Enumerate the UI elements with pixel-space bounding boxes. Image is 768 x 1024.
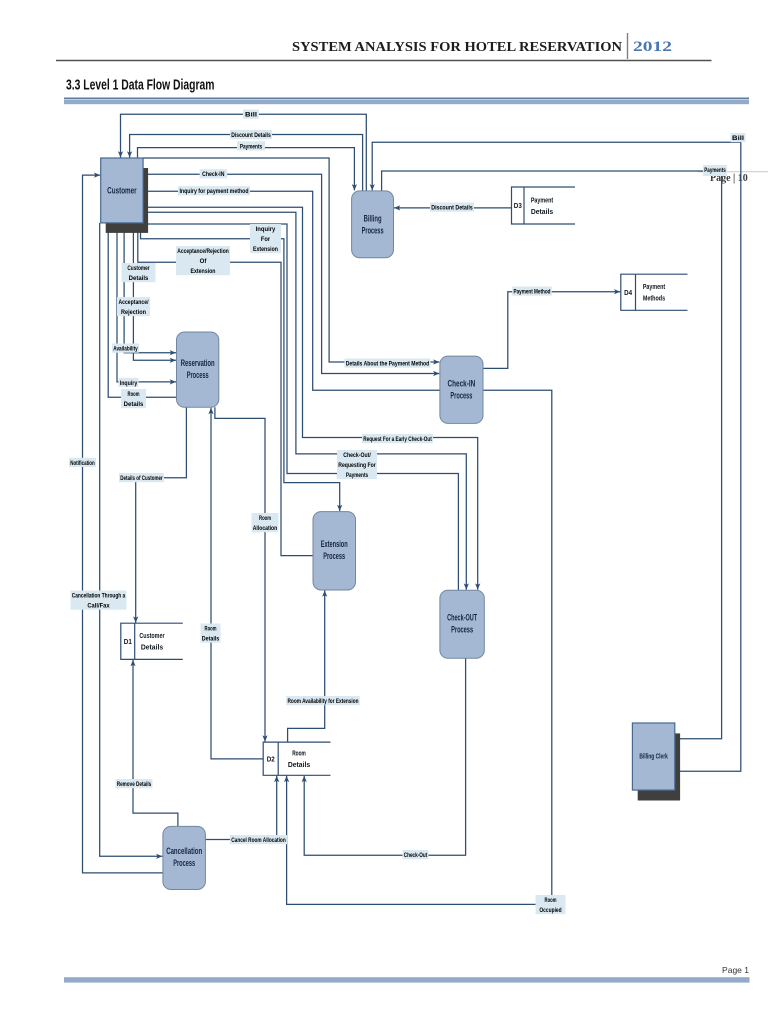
wire Bill (Billing Clerk to Billing Process): [370, 142, 741, 771]
node label: Inquiry For Extension: [250, 224, 281, 253]
side page number Page | 10: [698, 172, 768, 184]
wire Payment Method (Check-IN Process to D4): [483, 289, 620, 368]
node label: Payments: [237, 141, 265, 150]
svg-text:Bill: Bill: [245, 112, 257, 119]
svg-text:Inquiry: Inquiry: [256, 226, 276, 233]
node label: Room Availability for Extension: [286, 696, 360, 705]
node label: Room Allocation: [252, 513, 279, 532]
svg-text:3.3 Level 1 Data Flow Diagram: 3.3 Level 1 Data Flow Diagram: [66, 78, 215, 94]
wire Notification (Cancellation Process to Customer): [83, 173, 163, 873]
svg-text:Payment: Payment: [531, 197, 554, 204]
wire Room Details (D2 to Reservation Process): [208, 408, 263, 759]
svg-text:Details About the Payment Meth: Details About the Payment Method: [346, 361, 430, 368]
svg-text:Availability: Availability: [113, 346, 138, 353]
process Billing Process U1: [352, 191, 394, 258]
wire Discount Details (Billing Process to Customer): [127, 135, 363, 191]
svg-text:Process: Process: [187, 370, 209, 381]
wire Check-IN (Customer to Check-IN Process): [143, 174, 439, 376]
svg-text:Process: Process: [323, 551, 345, 562]
svg-text:Room: Room: [545, 897, 557, 904]
svg-text:Cancellation: Cancellation: [166, 846, 202, 857]
svg-text:Billing: Billing: [364, 214, 382, 225]
node label: Acceptance/ Rejection: [117, 297, 150, 316]
process Cancellation Process: [163, 826, 206, 889]
svg-text:Details: Details: [129, 275, 149, 282]
node label: Bill right: [731, 133, 746, 142]
node label: Cancel Room Allocation: [230, 835, 287, 844]
svg-text:Requesting For: Requesting For: [338, 462, 376, 469]
node label: Payments right: [703, 165, 727, 176]
node label: Check-Out Requesting For Payments: [337, 450, 377, 479]
svg-text:Extension: Extension: [253, 246, 278, 253]
wire Inquiry For Extension (Customer to Extension Process): [141, 223, 343, 511]
svg-text:Cancellation Through a: Cancellation Through a: [72, 593, 126, 600]
svg-text:Room: Room: [292, 751, 306, 758]
footer band and Page 1: [64, 965, 750, 983]
svg-text:Check-OUT: Check-OUT: [447, 613, 477, 624]
svg-text:Extension: Extension: [321, 539, 348, 550]
data store D2 Room Details: [263, 742, 330, 775]
wire Request For a Early Check-Out (Customer to Check-OUT): [143, 207, 480, 590]
svg-text:Allocation: Allocation: [253, 525, 278, 532]
svg-text:D1: D1: [124, 639, 132, 646]
svg-text:Details: Details: [124, 401, 144, 408]
svg-text:Room: Room: [128, 391, 140, 398]
svg-text:Billing Clerk: Billing Clerk: [639, 754, 668, 761]
svg-text:Customer: Customer: [127, 265, 150, 272]
node label: Remove Details: [116, 779, 153, 788]
wire Acceptance/Rejection Of Extension (Extension Process to Customer): [138, 223, 313, 556]
svg-text:Of: Of: [200, 258, 208, 265]
node label: Discount Details: [230, 130, 272, 139]
wire Details of Customer (Reservation Process to D1): [133, 407, 186, 622]
node label: Check-Out label: [403, 850, 429, 859]
svg-text:Extension: Extension: [191, 268, 216, 275]
svg-text:Payments: Payments: [704, 167, 726, 174]
node label: Check-IN: [200, 169, 228, 178]
node label: Details of Customer: [119, 473, 164, 482]
wire Cancel Room Allocation (Cancellation Process to D2): [205, 776, 279, 840]
node label: Details About the Payment Method: [345, 359, 431, 368]
node label: Acceptance/Rejection Of Extension: [176, 246, 230, 275]
node label: Customer Details: [122, 263, 156, 282]
svg-text:Payments: Payments: [240, 143, 263, 150]
svg-text:Process: Process: [451, 625, 473, 636]
svg-text:Check-Out/: Check-Out/: [343, 452, 371, 459]
svg-text:Bill: Bill: [732, 135, 744, 142]
svg-text:Payment: Payment: [643, 284, 666, 291]
svg-text:Notification: Notification: [70, 460, 95, 467]
wire Check-Out (Check-OUT Process to D2): [302, 658, 466, 855]
svg-text:Occupied: Occupied: [539, 907, 561, 914]
svg-text:Page 1: Page 1: [722, 965, 749, 975]
node label: Request For a Early Check-Out: [362, 434, 433, 443]
wire Discount Details (D3 to Billing Process): [394, 205, 512, 210]
svg-text:Details: Details: [288, 762, 310, 769]
page header title: [56, 33, 712, 61]
node label: Cancellation Through a Call/Fax: [71, 591, 127, 610]
svg-text:SYSTEM ANALYSIS FOR HOTEL RESE: SYSTEM ANALYSIS FOR HOTEL RESERVATION: [292, 39, 622, 54]
svg-text:Customer: Customer: [107, 186, 137, 197]
svg-text:Acceptance/Rejection: Acceptance/Rejection: [177, 248, 229, 255]
svg-text:Check-IN: Check-IN: [448, 379, 476, 390]
svg-text:Inquiry for payment method: Inquiry for payment method: [179, 188, 248, 195]
node label: Availability: [112, 344, 139, 353]
external entity Customer: [101, 158, 148, 233]
data store D4 Payment Methods: [621, 274, 688, 310]
node label: Bill: [243, 110, 259, 119]
svg-text:Methods: Methods: [643, 296, 665, 303]
process Check-OUT Process: [440, 590, 484, 658]
process Check-IN Process: [440, 356, 483, 423]
svg-text:Check-Out: Check-Out: [404, 852, 428, 859]
svg-text:Customer: Customer: [139, 633, 164, 640]
process Reservation Process: [177, 332, 219, 407]
external entity Billing Clerk: [632, 723, 680, 801]
svg-text:Check-IN: Check-IN: [202, 171, 225, 178]
process Extension Process: [313, 512, 356, 590]
svg-text:Details: Details: [531, 209, 553, 216]
node label: Inquiry: [119, 378, 139, 387]
svg-text:Cancel Room Allocation: Cancel Room Allocation: [231, 837, 286, 844]
svg-text:Discount Details: Discount Details: [431, 205, 473, 212]
wire Details About the Payment Method (Customer to Check-IN): [143, 158, 439, 365]
svg-text:Rejection: Rejection: [121, 309, 146, 316]
data store D3 Payment Details: [512, 187, 576, 224]
wire Inquiry for payment method (Customer to Check-IN Process): [143, 191, 440, 390]
svg-text:Process: Process: [450, 391, 472, 402]
svg-text:2012: 2012: [633, 39, 672, 55]
svg-text:For: For: [261, 236, 271, 243]
section heading 3.3: [64, 78, 749, 105]
svg-text:D3: D3: [514, 203, 522, 210]
node label: Room Details left: [121, 389, 146, 408]
svg-text:Reservation: Reservation: [181, 358, 215, 369]
node label: Notification: [69, 458, 96, 467]
svg-text:Process: Process: [173, 858, 195, 869]
wire Check-Out (Customer to Check-OUT Process): [143, 212, 469, 590]
node label: Discount Details D3: [430, 203, 474, 212]
wire Remove Details (Cancellation Process to D1): [130, 660, 178, 827]
wire Room Availability for Extension (D2 to Extension Process): [288, 591, 328, 743]
svg-text:D4: D4: [624, 290, 632, 297]
data store D1 Customer Details: [121, 623, 183, 659]
svg-text:Remove Details: Remove Details: [117, 781, 152, 788]
wire Room Occupied (Check-IN Process to D2): [284, 390, 552, 904]
svg-text:Request For a Early Check-Out: Request For a Early Check-Out: [363, 436, 432, 443]
wire Bill (Billing Process to Customer): [118, 114, 366, 191]
wire Room Details (Reservation Process to Customer): [108, 223, 176, 397]
svg-text:Room Availability for Extensio: Room Availability for Extension: [288, 698, 359, 705]
svg-text:Details: Details: [202, 636, 220, 643]
wire Requesting For Payments (Customer to Check-OUT Process): [143, 224, 458, 590]
svg-text:Process: Process: [362, 226, 384, 237]
svg-text:Payments: Payments: [346, 472, 369, 479]
wire Customer Details (Customer to Reservation Process): [133, 223, 176, 363]
wire Payments (Customer to Billing Process): [138, 148, 358, 191]
svg-text:D2: D2: [267, 756, 275, 763]
wire Room Allocation (Reservation Process to D2): [215, 407, 268, 741]
node label: Room Occupied: [536, 895, 566, 914]
wire Cancellation Through a Call/Fax (Customer to Cancellation Process): [100, 223, 163, 859]
svg-text:Details of Customer: Details of Customer: [120, 475, 163, 482]
svg-text:Room: Room: [259, 515, 271, 522]
svg-text:Details: Details: [141, 645, 163, 652]
node label: Room Details mid: [201, 624, 221, 643]
wire Availability (Customer to Reservation Process): [124, 223, 176, 355]
wire Payments (Billing Process to Billing Clerk): [382, 171, 722, 739]
svg-text:Payment Method: Payment Method: [514, 289, 551, 296]
node label: Inquiry for payment method: [178, 186, 250, 195]
svg-text:Acceptance/: Acceptance/: [118, 299, 148, 306]
svg-text:Discount Details: Discount Details: [231, 132, 271, 139]
svg-text:Call/Fax: Call/Fax: [87, 603, 110, 610]
svg-text:Room: Room: [205, 626, 217, 633]
svg-text:Inquiry: Inquiry: [120, 380, 138, 387]
node label: Payment Method: [512, 287, 552, 296]
wire Inquiry (Customer to Reservation Process): [117, 223, 176, 385]
